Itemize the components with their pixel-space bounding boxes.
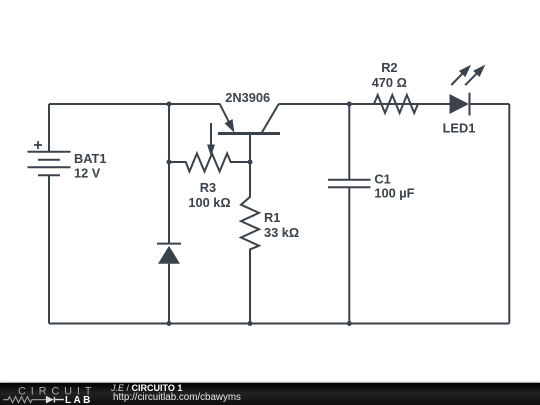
logo resistor squiggle <box>3 397 46 403</box>
CircuitLab logo <box>0 383 110 405</box>
diode D1 <box>157 244 181 264</box>
label LED1 <box>443 121 476 136</box>
wire: bottom rail <box>49 323 509 325</box>
transistor Q1 2N3906 <box>216 102 280 162</box>
label 2N3906 <box>225 90 270 105</box>
wire: top rail from collector to LED <box>279 103 450 105</box>
base bar <box>218 132 280 135</box>
svg-text:12 V: 12 V <box>74 165 101 180</box>
svg-text:R3: R3 <box>200 180 216 195</box>
node: bottom rail / diode <box>167 321 172 326</box>
base lead down to node <box>249 134 251 163</box>
junction node dots <box>167 102 352 327</box>
wire: right rail <box>508 104 510 324</box>
footer title text <box>111 383 182 393</box>
label C1 value <box>374 172 414 201</box>
capacitor C1 <box>328 104 371 324</box>
resistor R3 (variable) <box>169 123 250 172</box>
collector diagonal <box>262 104 279 133</box>
plus sign of BAT1 <box>34 141 42 149</box>
svg-text:BAT1: BAT1 <box>74 151 106 166</box>
battery BAT1 <box>28 152 71 176</box>
wire: top rail left segment (battery + to emitter) <box>49 103 220 105</box>
node: top rail / R3-diode branch <box>167 102 172 107</box>
svg-text:470 Ω: 470 Ω <box>372 75 407 90</box>
node: R3 left / diode <box>167 160 172 165</box>
svg-text:100 kΩ: 100 kΩ <box>188 195 230 210</box>
node: bottom rail / R1 <box>248 321 253 326</box>
arrow of R3 <box>210 123 212 147</box>
footer url text <box>113 392 241 403</box>
svg-text:33 kΩ: 33 kΩ <box>264 225 299 240</box>
resistor R2 <box>350 95 450 113</box>
wire: left rail lower (battery - down to bottom rail) <box>48 175 50 323</box>
svg-text:LAB: LAB <box>65 396 93 405</box>
wire: diode branch below R3 <box>168 162 170 244</box>
node: R3 right / base / R1 <box>248 160 253 165</box>
wire: LED cathode to right rail <box>470 103 510 105</box>
svg-text:R2: R2 <box>381 60 397 75</box>
resistor R1 <box>241 162 259 324</box>
svg-text:LED1: LED1 <box>443 121 476 136</box>
wire: branch from top rail down to R3 left / diode (node x=169) <box>168 104 170 162</box>
wire: diode anode to bottom rail <box>168 264 170 324</box>
wire: left rail upper (top rail down to battery) <box>48 104 50 152</box>
node: top rail / C1 <box>347 102 352 107</box>
footer bar <box>0 383 540 405</box>
node: bottom rail / C1 <box>347 321 352 326</box>
emitter diagonal with arrow <box>216 102 239 135</box>
LED emission arrow 2 <box>462 61 489 88</box>
svg-text:R1: R1 <box>264 210 280 225</box>
LED LED1 <box>448 61 488 115</box>
label R2 value <box>372 60 407 90</box>
svg-text:2N3906: 2N3906 <box>225 90 270 105</box>
logo diode <box>46 396 54 404</box>
label BAT1 value <box>74 151 106 181</box>
svg-text:100 µF: 100 µF <box>374 185 414 200</box>
label R1 value <box>264 210 299 240</box>
LED emission arrow 1 <box>448 62 474 89</box>
label R3 value <box>188 180 230 210</box>
